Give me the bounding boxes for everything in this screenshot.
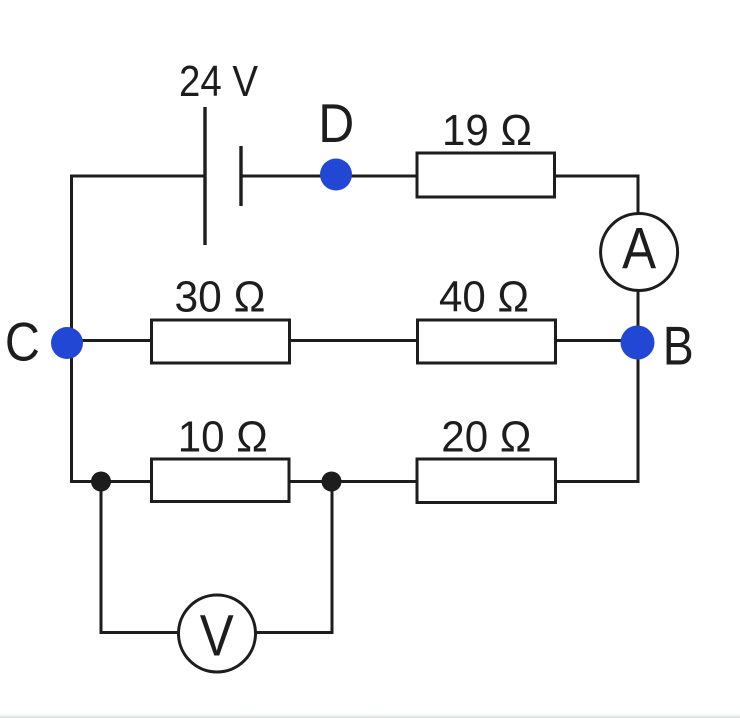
resistor R3 40ohm body bbox=[418, 320, 556, 363]
resistor R2 30ohm body bbox=[152, 320, 290, 363]
node B blue dot bbox=[621, 326, 655, 360]
ammeter A1 circle bbox=[601, 214, 678, 291]
svg-text:19 Ω: 19 Ω bbox=[442, 106, 532, 155]
wire: voltmeter branch right (from voltmeter right, up to right junction) bbox=[255, 482, 332, 633]
wire: resistor 10ohm to resistor 20ohm (through right junction) bbox=[291, 480, 417, 483]
wire: left rail from node C down and right to bottom row bbox=[72, 343, 151, 482]
wire: battery to resistor 19ohm (through node D) bbox=[241, 175, 417, 178]
battery B1: short plate (-) bbox=[239, 146, 242, 206]
svg-text:V: V bbox=[200, 604, 234, 669]
resistor R1 19ohm body bbox=[417, 153, 555, 197]
svg-text:24 V: 24 V bbox=[179, 57, 259, 106]
wire: resistor 19ohm to right rail corner bbox=[556, 176, 638, 213]
resistor R4 10ohm body bbox=[152, 459, 290, 502]
wire: left vertical rail (top wire down to node C) bbox=[70, 175, 73, 344]
node D blue dot bbox=[320, 159, 352, 191]
svg-text:40 Ω: 40 Ω bbox=[439, 273, 529, 322]
svg-text:D: D bbox=[318, 92, 354, 154]
wire: voltmeter branch left (down from left junction, right to voltmeter) bbox=[101, 482, 179, 633]
node C blue dot bbox=[51, 327, 83, 359]
wire: resistor 30ohm to resistor 40ohm bbox=[291, 339, 416, 342]
junction dot (right, bottom row) bbox=[322, 472, 342, 492]
bottom edge shading bbox=[0, 712, 740, 718]
resistor R5 20ohm body bbox=[417, 459, 556, 503]
svg-text:20 Ω: 20 Ω bbox=[441, 413, 531, 462]
junction dot (left, bottom row) bbox=[91, 472, 111, 492]
battery B1: long plate (+) bbox=[203, 107, 206, 245]
wire: top-left horizontal from left rail to battery bbox=[70, 175, 205, 178]
svg-text:10 Ω: 10 Ω bbox=[178, 413, 268, 462]
wire: ammeter down to node B bbox=[637, 291, 640, 344]
svg-text:B: B bbox=[663, 315, 694, 377]
svg-text:C: C bbox=[5, 311, 40, 373]
svg-text:A: A bbox=[622, 217, 656, 282]
wire: resistor 40ohm to node B bbox=[557, 339, 638, 342]
wire: node B down right rail to bottom row bbox=[637, 342, 640, 482]
wire: node C to resistor 30ohm bbox=[67, 339, 151, 342]
wire: resistor 20ohm to right rail bbox=[557, 480, 640, 483]
voltmeter V1 circle bbox=[179, 595, 256, 672]
svg-text:30 Ω: 30 Ω bbox=[175, 273, 266, 322]
